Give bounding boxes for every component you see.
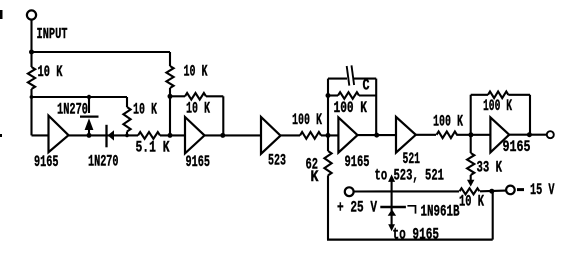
- svg-text:33 K: 33 K: [477, 159, 503, 177]
- svg-text:100 K: 100 K: [292, 112, 322, 130]
- svg-text:5.1 K: 5.1 K: [136, 139, 170, 157]
- svg-text:1N270: 1N270: [88, 153, 119, 171]
- svg-text:100 K: 100 K: [433, 113, 463, 131]
- svg-text:1N961B: 1N961B: [421, 203, 460, 221]
- svg-text:100 K: 100 K: [334, 100, 368, 118]
- svg-text:9165: 9165: [34, 154, 59, 172]
- svg-text:to 9165: to 9165: [393, 226, 440, 244]
- svg-text:10 K: 10 K: [184, 63, 208, 81]
- svg-text:9165: 9165: [503, 139, 531, 157]
- svg-text:100 K: 100 K: [483, 98, 512, 116]
- svg-text:521: 521: [403, 151, 421, 169]
- svg-text:to 523, 521: to 523, 521: [375, 167, 445, 185]
- svg-text:K: K: [311, 169, 319, 187]
- svg-text:15 V: 15 V: [530, 182, 555, 200]
- svg-text:10 K: 10 K: [133, 101, 157, 119]
- svg-text:10 K: 10 K: [459, 193, 484, 211]
- svg-text:9165: 9165: [186, 154, 211, 172]
- svg-text:523: 523: [268, 152, 286, 170]
- svg-text:9165: 9165: [345, 154, 370, 172]
- svg-text:INPUT: INPUT: [37, 27, 68, 44]
- svg-text:C: C: [363, 77, 370, 95]
- svg-text:1N270: 1N270: [57, 101, 88, 119]
- svg-text:10 K: 10 K: [186, 100, 210, 118]
- svg-text:10 K: 10 K: [38, 64, 63, 82]
- svg-text:+ 25 V: + 25 V: [337, 199, 377, 217]
